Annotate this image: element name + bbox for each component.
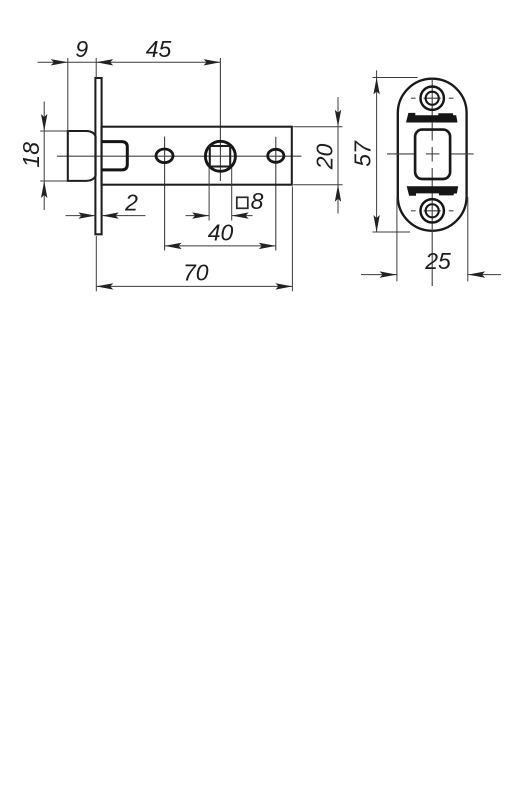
extension lines for 57 bbox=[373, 77, 418, 79]
top ramp bar (black) bbox=[406, 113, 458, 123]
dimension 40 bbox=[165, 245, 276, 247]
dimension 70 bbox=[96, 285, 292, 287]
bottom screw outer circle bbox=[421, 199, 444, 222]
strike plate oval outline bbox=[398, 79, 467, 231]
top screw cross line bbox=[411, 97, 416, 99]
svg-text:70: 70 bbox=[183, 260, 209, 286]
latch case body bbox=[102, 127, 292, 185]
faceplate bbox=[95, 78, 101, 234]
svg-text:57: 57 bbox=[350, 140, 376, 167]
svg-text:18: 18 bbox=[18, 142, 44, 168]
extension lines for 18 bbox=[40, 130, 67, 132]
svg-text:25: 25 bbox=[424, 248, 451, 274]
strike plate horizontal centerline bbox=[387, 153, 414, 155]
node: vertical centerline through spindle hole bbox=[219, 58, 221, 181]
extension lines for 25 bbox=[396, 197, 398, 281]
node: vertical centerline through oval hole 1 bbox=[164, 137, 166, 251]
bottom screw inner circle bbox=[426, 204, 439, 217]
oval hole 1 bbox=[156, 149, 173, 163]
dimension 2 (faceplate thickness) bbox=[66, 215, 96, 217]
dimension 18 vertical line bbox=[43, 102, 45, 211]
node: vertical centerline through oval hole 2 bbox=[275, 137, 277, 251]
svg-text:20: 20 bbox=[312, 144, 338, 171]
spindle square 8mm bbox=[210, 146, 230, 167]
dimension square-8 bbox=[208, 168, 210, 221]
extension lines for 20 bbox=[293, 126, 342, 128]
top screw inner circle bbox=[426, 92, 439, 105]
latch bolt head bbox=[68, 131, 96, 181]
bottom ramp bar (black) bbox=[407, 186, 459, 196]
dimension 20 vertical line bbox=[337, 97, 339, 214]
extension line at bolt face bbox=[67, 58, 69, 131]
latch window square hole bbox=[415, 130, 450, 179]
svg-text:40: 40 bbox=[208, 220, 234, 246]
oval hole 2 bbox=[268, 149, 284, 162]
dimension 57 vertical line bbox=[376, 70, 378, 232]
top screw outer circle bbox=[421, 87, 444, 110]
svg-text:2: 2 bbox=[124, 190, 138, 216]
svg-text:45: 45 bbox=[146, 36, 172, 62]
bottom screw cross line bbox=[411, 210, 416, 212]
square symbol of label 8 bbox=[237, 197, 248, 208]
svg-text:8: 8 bbox=[251, 188, 264, 214]
spindle hole circle bbox=[205, 141, 235, 171]
latch bolt tail bbox=[102, 142, 128, 170]
strike plate vertical centerline bbox=[431, 79, 433, 141]
svg-text:9: 9 bbox=[75, 36, 88, 62]
dimension 25 bbox=[361, 274, 397, 276]
wire: main horizontal centerline of latch bbox=[57, 155, 302, 157]
dimension line top (9 and 45) bbox=[38, 61, 221, 63]
extension line at faceplate front bbox=[95, 58, 97, 78]
extension lines for 70 bbox=[95, 236, 97, 291]
